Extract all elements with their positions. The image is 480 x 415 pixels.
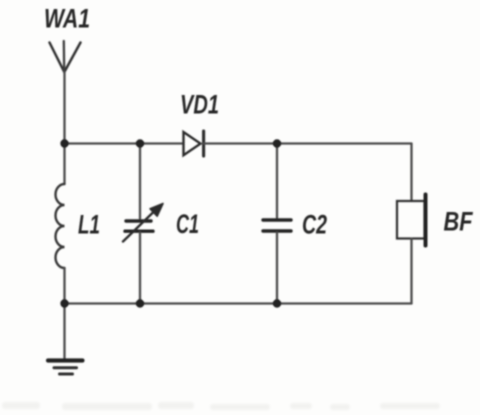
junction bottom C2 bbox=[273, 299, 281, 307]
junction top C1 bbox=[136, 139, 144, 147]
svg-text:VD1: VD1 bbox=[180, 90, 219, 120]
svg-text:C1: C1 bbox=[176, 209, 199, 239]
svg-text:C2: C2 bbox=[302, 210, 327, 240]
wire right branch down to BF bbox=[410, 144, 412, 202]
ground bbox=[48, 361, 83, 375]
wire C1 upper bbox=[139, 144, 141, 220]
wire ground lead bbox=[63, 304, 65, 360]
wire left branch lower bbox=[63, 268, 65, 304]
svg-text:L1: L1 bbox=[78, 210, 100, 240]
antenna WA1 bbox=[50, 41, 81, 72]
wire antenna to top rail bbox=[63, 72, 65, 144]
wire left branch upper bbox=[63, 144, 65, 185]
wire bottom rail bbox=[65, 302, 412, 304]
diode VD1 bbox=[184, 131, 204, 156]
headphone BF bbox=[397, 195, 426, 246]
wire C2 lower bbox=[276, 233, 278, 304]
capacitor C1 (variable) bbox=[123, 204, 163, 242]
svg-text:WA1: WA1 bbox=[44, 4, 90, 34]
wire top rail left segment bbox=[65, 142, 184, 144]
wire C1 lower bbox=[139, 233, 141, 304]
capacitor C2 bbox=[263, 220, 291, 231]
wire BF to bottom rail bbox=[410, 239, 412, 304]
wire C2 upper bbox=[276, 144, 278, 219]
junction bottom C1 bbox=[136, 299, 144, 307]
junction top C2 bbox=[273, 139, 281, 147]
junction bottom-left bbox=[60, 299, 68, 307]
inductor L1 bbox=[56, 184, 65, 268]
svg-text:BF: BF bbox=[444, 207, 474, 237]
wire top rail right segment bbox=[204, 142, 412, 144]
faint cropped caption remnants bbox=[2, 402, 40, 409]
junction top-left bbox=[60, 139, 68, 147]
